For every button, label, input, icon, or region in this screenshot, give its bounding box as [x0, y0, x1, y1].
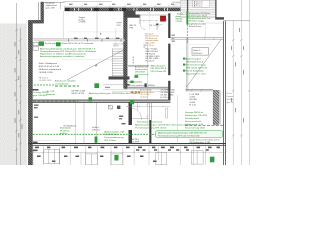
svg-text:H 2.26 m: H 2.26 m — [145, 45, 154, 47]
svg-text:WU-Bet: WU-Bet — [176, 18, 184, 21]
level notes right — [189, 94, 200, 106]
terrain stipple area left — [0, 24, 27, 166]
svg-text:H 2.26 m: H 2.26 m — [161, 97, 170, 99]
dim line mid vertical — [147, 45, 149, 124]
room label box right — [188, 45, 213, 56]
svg-text:Bodenplatte: Bodenplatte — [60, 127, 72, 130]
svg-text:Arbeitsraum lagenweise verfuel: Arbeitsraum lagenweise verfuellen u. ver… — [40, 55, 85, 58]
dim line above top band — [64, 4, 181, 7]
door leaf near wall x168 — [166, 108, 168, 118]
svg-text:Perimeterdaemmung XPS 120 mm W: Perimeterdaemmung XPS 120 mm WLG 035 — [158, 134, 200, 137]
svg-text:Abdichtung Bodenplatte und Wan: Abdichtung Bodenplatte und Wand gem. DIN… — [40, 47, 96, 50]
dimension line left outer — [15, 3, 18, 165]
room left wall — [185, 38, 187, 91]
svg-text:Perimeterdaemmung XPS 120mm: Perimeterdaemmung XPS 120mm — [135, 126, 167, 129]
wall jog horizontal — [28, 20, 43, 23]
notes right margin — [227, 93, 234, 104]
svg-text:Daemm: Daemm — [227, 96, 234, 98]
green dashed line left — [55, 85, 79, 87]
svg-text:18533 W1.1-E: 18533 W1.1-E — [104, 134, 118, 136]
svg-text:Sockel gedaemmt 60mm WLG 035 a: Sockel gedaemmt 60mm WLG 035 ab OK Gelae… — [45, 42, 94, 45]
svg-text:OK FFB -2.635: OK FFB -2.635 — [39, 80, 52, 82]
wall bar top right — [215, 17, 224, 19]
corridor lines — [69, 31, 125, 33]
svg-text:Neubau: Neubau — [196, 5, 203, 7]
door frame lines — [136, 102, 138, 110]
interior wall x150 — [149, 103, 151, 144]
svg-text:FB: Estrich: FB: Estrich — [39, 76, 48, 79]
wall y100 double — [33, 100, 171, 102]
svg-text:Kiesschuettung 16/32: Kiesschuettung 16/32 — [185, 126, 206, 129]
svg-text:Bodenplatte WU-Beton: Bodenplatte WU-Beton — [189, 12, 211, 15]
svg-text:Abdichtung gem.: Abdichtung gem. — [186, 57, 202, 60]
svg-text:XPS 120mm WLG 035: XPS 120mm WLG 035 — [186, 67, 208, 69]
svg-text:bis UK Bodenplatte: bis UK Bodenplatte — [186, 69, 205, 72]
svg-text:WU-Beton: WU-Beton — [60, 129, 70, 132]
interior wall x130 — [128, 102, 132, 143]
top edge line — [41, 1, 65, 3]
svg-text:8.91 m2: 8.91 m2 — [92, 129, 100, 131]
level note — [71, 91, 141, 96]
svg-text:Keller 3: Keller 3 — [193, 49, 201, 52]
text top-left — [46, 2, 58, 10]
green long dashed line bottom — [33, 133, 176, 135]
svg-text:Revisionsschacht: Revisionsschacht — [185, 120, 202, 123]
stair label — [113, 43, 125, 48]
svg-text:BGF 22.45 m2 H 2.48: BGF 22.45 m2 H 2.48 — [39, 66, 60, 68]
svg-text:Bestand abd.: Bestand abd. — [135, 68, 148, 71]
niches in left wall — [33, 42, 38, 45]
svg-text:WU-Bet: WU-Bet — [227, 98, 234, 101]
svg-text:platte: platte — [176, 15, 182, 18]
green rows right of wall x170 — [176, 13, 185, 23]
door arc corridor — [144, 43, 149, 48]
wall top-left vertical — [38, 2, 40, 20]
svg-text:kapillarbrechende: kapillarbrechende — [189, 22, 206, 25]
svg-text:Abdichtung Sockel gem. DIN 185: Abdichtung Sockel gem. DIN 18533 bis 30c… — [135, 123, 191, 126]
dark stub left — [33, 89, 39, 90]
green dashed vertical — [186, 25, 188, 45]
top right line — [224, 20, 250, 22]
room label flur — [146, 48, 161, 63]
mid horizontal walls near stairs — [128, 81, 142, 83]
green annotation rows top-left — [40, 42, 97, 58]
room top face — [136, 14, 168, 16]
svg-text:d=30cm gem. Statik: d=30cm gem. Statik — [189, 15, 208, 18]
svg-text:C25/30: C25/30 — [176, 21, 184, 23]
svg-text:verputzt: verputzt — [140, 96, 148, 99]
svg-text:gem. DIN 4095: gem. DIN 4095 — [33, 95, 48, 97]
green rows right room — [183, 57, 208, 75]
svg-text:H 2.26 m: H 2.26 m — [146, 61, 155, 63]
window detail boxes bottom — [44, 149, 203, 165]
svg-text:Sauberkeitsschicht 5cm: Sauberkeitsschicht 5cm — [189, 17, 211, 20]
section diagonal right — [187, 39, 222, 87]
dim line mid horizontal — [126, 106, 170, 108]
door arc top corridor — [148, 12, 150, 30]
bottom extension lines — [33, 145, 206, 165]
svg-text:Perimeterdaemmung: Perimeterdaemmung — [104, 136, 124, 139]
top small vertical — [59, 2, 61, 9]
svg-text:OK FFB -2.635: OK FFB -2.635 — [39, 72, 54, 74]
svg-text:gem. St: gem. St — [227, 101, 234, 104]
door arc lower — [131, 108, 141, 120]
svg-text:H: 2.26: H: 2.26 — [189, 104, 197, 106]
svg-text:UK RD -0.325: UK RD -0.325 — [71, 93, 85, 95]
rotated dim numbers left — [15, 42, 23, 137]
green dashed right — [185, 125, 223, 127]
svg-text:XPS 120mm: XPS 120mm — [104, 140, 116, 142]
wall hatched right vertical — [213, 90, 219, 124]
interior dim line — [140, 20, 158, 22]
svg-text:30 cm: 30 cm — [227, 93, 233, 95]
stair wall — [124, 11, 128, 88]
svg-text:XPS 120mm 035: XPS 120mm 035 — [151, 71, 168, 73]
green rows mid column B — [151, 65, 168, 73]
green rows mid column A — [135, 65, 149, 74]
svg-text:Perimeterdaemmung XPS 120mm WL: Perimeterdaemmung XPS 120mm WLG 035 bis … — [40, 50, 97, 53]
svg-text:KS+XPS: KS+XPS — [131, 141, 140, 143]
wall left band — [28, 23, 32, 165]
green rows bottom wide — [135, 120, 191, 129]
svg-text:d=30cm: d=30cm — [60, 133, 68, 135]
bottom dim line — [30, 151, 226, 153]
dimension line left inner — [19, 28, 22, 165]
svg-text:Noppenbahn mit Gleitvlies und: Noppenbahn mit Gleitvlies und Abschlussp… — [40, 53, 87, 56]
svg-text:DIN 18533 W1.1-E: DIN 18533 W1.1-E — [186, 61, 204, 63]
svg-text:Drainage DN100: Drainage DN100 — [33, 91, 49, 94]
brown block mid — [145, 32, 159, 47]
wall y38 right — [170, 37, 223, 39]
svg-text:Kiesbett gem. DIN 4095: Kiesbett gem. DIN 4095 — [185, 114, 208, 117]
svg-text:Abdichtung Sockel gem. DIN 185: Abdichtung Sockel gem. DIN 18533 bis 30c… — [89, 92, 141, 95]
svg-text:Gelaende: Gelaende — [46, 94, 56, 96]
svg-text:gem. DIN: gem. DIN — [46, 8, 55, 10]
svg-text:Sockelputz auf Daemmung: Sockelputz auf Daemmung — [137, 120, 163, 123]
section diagonal left — [67, 49, 126, 81]
svg-text:FB Estrich schwimmend: FB Estrich schwimmend — [39, 68, 62, 71]
bottom dim ticks — [32, 152, 226, 154]
wide hatch top right — [181, 0, 216, 18]
black rows in room — [130, 25, 137, 30]
svg-text:Abdichtung der Bodenplatte gem: Abdichtung der Bodenplatte gem. DIN 1853… — [158, 132, 207, 135]
svg-text:Anschluss an: Anschluss an — [135, 65, 148, 68]
svg-text:Anschluss abdichten: Anschluss abdichten — [126, 84, 146, 87]
door arc room — [140, 24, 145, 29]
svg-text:18.5/27: 18.5/27 — [113, 46, 119, 48]
interior thin walls — [83, 102, 85, 143]
wall x168 — [168, 13, 171, 100]
green rows bottom mid — [104, 130, 124, 141]
green rows left mid — [33, 80, 77, 97]
svg-text:Keller 1 Hobbyraum: Keller 1 Hobbyraum — [39, 62, 58, 65]
bottom dim numbers row — [33, 142, 220, 162]
text Treppe upper — [78, 16, 86, 24]
green rows right lower — [185, 111, 208, 129]
svg-text:Abdichtung gem.: Abdichtung gem. — [151, 65, 167, 68]
svg-text:DN100: DN100 — [148, 85, 155, 87]
red marker — [160, 16, 165, 21]
wall block below band — [124, 11, 135, 15]
svg-text:Kontrollschacht: Kontrollschacht — [185, 117, 200, 120]
wall right double — [222, 21, 225, 165]
legend box — [193, 0, 210, 7]
svg-text:Sauberkeitsschicht C8/10 d=5cm: Sauberkeitsschicht C8/10 d=5cm — [189, 138, 220, 141]
green vertical dash mid — [132, 57, 134, 65]
svg-text:17.6/28: 17.6/28 — [78, 22, 86, 24]
room partition x140 — [138, 15, 140, 24]
green rows bottom left — [60, 125, 77, 135]
svg-text:Arbeitsraum verfuellen: Arbeitsraum verfuellen — [55, 80, 77, 83]
bottom wall double — [28, 143, 225, 144]
green outlined note box bottom — [156, 131, 223, 138]
svg-text:Abdichtung gem. DIN: Abdichtung gem. DIN — [104, 130, 124, 133]
rows below green box — [189, 138, 220, 144]
wall top band — [65, 8, 181, 11]
green dashed line mid — [33, 100, 78, 102]
svg-text:Schicht 15cm: Schicht 15cm — [189, 25, 202, 28]
svg-text:Noppenbahn m. Vlies: Noppenbahn m. Vlies — [186, 73, 206, 75]
svg-text:DIN 18533: DIN 18533 — [135, 72, 146, 74]
room label left — [39, 62, 62, 82]
svg-text:Drainage DN100 im: Drainage DN100 im — [185, 111, 204, 114]
svg-text:Perimeterdaemmung: Perimeterdaemmung — [186, 63, 206, 66]
shaft symbol — [108, 106, 112, 109]
brown block lower — [140, 89, 154, 99]
svg-text:UK Bodenplatte -3.285: UK Bodenplatte -3.285 — [189, 141, 211, 144]
green solid markers — [39, 42, 44, 46]
stairs — [112, 49, 123, 77]
dimension lines right — [233, 0, 249, 165]
hatch right edge wall — [215, 0, 216, 19]
wall y90 right — [186, 88, 214, 90]
room label keller2 — [92, 126, 139, 144]
svg-text:und verdichten: und verdichten — [55, 82, 69, 85]
svg-text:18.30 m2: 18.30 m2 — [193, 53, 203, 55]
